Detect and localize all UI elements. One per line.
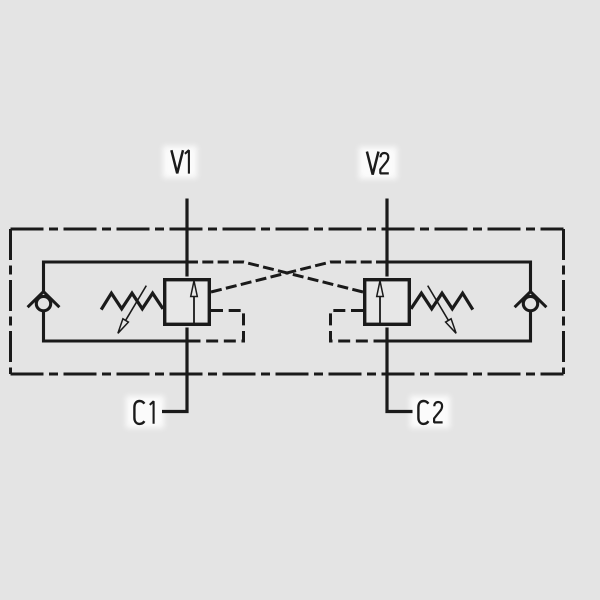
port label C1: [134, 401, 153, 424]
wire bypass loop right (around CB2): [386, 262, 531, 341]
check valve CV2 seat: [515, 292, 547, 308]
wire V2 port line: [385, 199, 388, 277]
CB1 adjustment arrow: [118, 286, 146, 334]
check valve CV1 ball: [36, 296, 50, 310]
check valve CV1 seat: [28, 292, 60, 308]
halo behind label V1: [163, 146, 197, 178]
pilot loop (dashed) CB2 to C2: [331, 311, 386, 342]
wire C1 port line with stub: [162, 328, 187, 412]
halo behind label V2: [359, 147, 397, 179]
pilot line (dashed) from V1 to CB2: [187, 262, 363, 292]
check valve CV2 ball: [523, 296, 537, 310]
counterbalance valve CB2 envelope: [365, 280, 410, 325]
wire C2 port line with stub: [387, 328, 413, 412]
enclosure boundary (dashed subplate body): [11, 229, 564, 374]
halo behind label C2: [410, 396, 450, 428]
CB2 flow arrow: [377, 281, 384, 325]
port label V2: [367, 152, 389, 175]
CB2 adjustment arrow: [428, 286, 456, 334]
wire V1 port line: [185, 199, 188, 277]
counterbalance valve CB1 envelope: [165, 280, 210, 325]
pilot line (dashed) from V2 to CB1: [211, 262, 387, 292]
CB2 adjustable spring: [411, 293, 473, 309]
CB1 adjustable spring: [101, 293, 163, 309]
pilot loop (dashed) CB1 to C1: [189, 311, 244, 342]
wire bypass loop left (around CB1): [44, 262, 189, 341]
port label V1: [171, 150, 189, 173]
port label C2: [418, 401, 442, 424]
CB1 flow arrow: [191, 281, 198, 325]
halo behind label C1: [126, 396, 164, 428]
